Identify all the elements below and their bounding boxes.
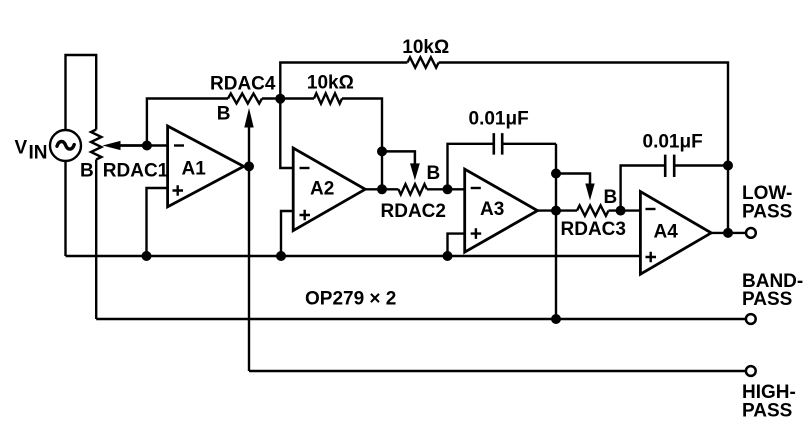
- resistor 10k feedback A2: [314, 93, 342, 103]
- wire A3 plus to ground rail: [448, 234, 465, 256]
- op-amp A3: [465, 169, 538, 252]
- op-amp A1: [168, 126, 244, 207]
- svg-text:OP279 × 2: OP279 × 2: [305, 289, 396, 310]
- svg-text:A2: A2: [310, 179, 334, 200]
- svg-text:PASS: PASS: [742, 289, 792, 310]
- node A4 minus: [616, 206, 626, 216]
- wire RDAC4 right to junction: [262, 97, 280, 99]
- svg-text:RDAC4: RDAC4: [210, 73, 276, 94]
- wire VIN top bracket to RDAC1 top: [66, 55, 97, 130]
- svg-text:B: B: [604, 187, 618, 208]
- wire A4 cap branch: [621, 166, 728, 211]
- wire 10k right down to A2 output node: [342, 99, 382, 190]
- label HIGH-PASS: [742, 382, 796, 421]
- label BAND-PASS: [742, 271, 803, 310]
- capacitor 0.01uF A3: [469, 108, 529, 154]
- terminal BAND-PASS: [746, 314, 756, 324]
- svg-text:B: B: [427, 163, 441, 184]
- label VIN: [15, 138, 48, 164]
- node A3 wiper branch: [551, 169, 561, 179]
- node A2 output: [377, 184, 387, 194]
- node A2 feedback: [377, 146, 387, 156]
- wire junction down to A2 minus: [280, 99, 293, 169]
- RDAC4 wiper arrow (A1 out up to RDAC4, down to high-pass rail): [244, 108, 253, 371]
- terminal HIGH-PASS: [746, 366, 756, 376]
- op-amp A2: [293, 148, 365, 231]
- svg-text:RDAC3: RDAC3: [561, 219, 626, 240]
- node A1 plus rail: [142, 251, 152, 261]
- ground rail: [66, 255, 642, 257]
- RDAC2 wiper arrow: [382, 151, 420, 180]
- svg-text:B: B: [80, 160, 94, 181]
- node band-pass junction: [551, 314, 561, 324]
- wire A3 cap branch: [448, 144, 557, 190]
- capacitor 0.01uF A4: [643, 132, 703, 177]
- node A2 plus rail: [276, 251, 286, 261]
- source VIN: [50, 130, 81, 161]
- svg-text:RDAC1: RDAC1: [103, 160, 169, 181]
- wire junction right to 10k resistor: [280, 97, 314, 99]
- potentiometer RDAC1: [91, 130, 101, 160]
- terminal LOW-PASS: [746, 228, 756, 238]
- svg-text:0.01μF: 0.01μF: [643, 132, 703, 153]
- node A3 plus rail: [443, 251, 453, 261]
- potentiometer RDAC2: [398, 184, 427, 194]
- wire junction up to top rail and across to LP node: [280, 63, 728, 233]
- svg-text:PASS: PASS: [742, 201, 792, 222]
- RDAC3 wiper arrow: [556, 174, 595, 201]
- wire RDAC3 right to A4 minus: [609, 209, 641, 211]
- wire RDAC1 bottom to band-pass rail: [95, 160, 97, 320]
- svg-text:IN: IN: [29, 143, 48, 164]
- potentiometer RDAC3: [577, 205, 609, 215]
- wire RDAC2 right to A3 minus: [427, 188, 465, 190]
- node A1 output: [244, 161, 254, 171]
- svg-text:10kΩ: 10kΩ: [307, 73, 354, 94]
- svg-text:10kΩ: 10kΩ: [402, 37, 449, 58]
- high-pass rail: [249, 370, 746, 372]
- node A3 output: [551, 206, 561, 216]
- label LOW-PASS: [742, 183, 792, 222]
- wire cap right down to band-pass rail: [555, 144, 557, 319]
- svg-text:A1: A1: [182, 159, 207, 180]
- op-amp A4: [640, 192, 711, 275]
- wire A1 minus node up to RDAC4 left: [147, 99, 228, 146]
- wire A2 output: [365, 188, 398, 190]
- node A3 minus: [443, 184, 453, 194]
- svg-text:RDAC2: RDAC2: [381, 201, 446, 222]
- wire A1 plus to ground rail: [147, 188, 168, 256]
- svg-text:A3: A3: [480, 199, 504, 220]
- node cap A4 right: [723, 161, 733, 171]
- svg-text:B: B: [217, 104, 231, 125]
- wire A1 minus stub: [147, 144, 168, 146]
- wire A1 output: [244, 165, 250, 167]
- RDAC1 wiper arrow: [103, 141, 147, 150]
- wire A3 output: [538, 209, 578, 211]
- node RDAC4 right junction: [275, 94, 285, 104]
- potentiometer RDAC4: [228, 94, 262, 104]
- svg-text:PASS: PASS: [742, 401, 792, 422]
- wire A4 output to low-pass terminal: [711, 232, 746, 234]
- resistor 10k top: [407, 57, 438, 67]
- svg-text:V: V: [15, 138, 28, 159]
- svg-text:0.01μF: 0.01μF: [469, 108, 529, 129]
- node A1 minus: [142, 141, 152, 151]
- wire A2 plus to ground rail: [281, 211, 293, 256]
- wire VIN bottom to ground rail: [64, 161, 66, 256]
- svg-text:A4: A4: [654, 222, 679, 243]
- node A4 output: [723, 228, 733, 238]
- band-pass rail: [96, 318, 746, 320]
